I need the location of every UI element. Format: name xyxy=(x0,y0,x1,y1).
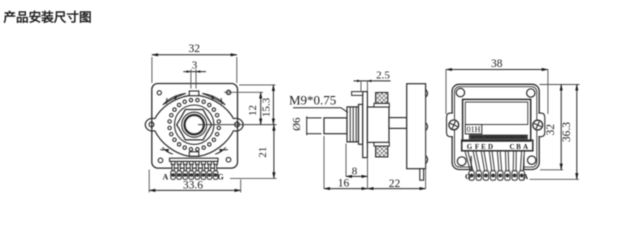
svg-text:2.5: 2.5 xyxy=(376,69,390,81)
centre leader line xyxy=(198,124,277,126)
connector terminals xyxy=(171,171,218,180)
flange plate xyxy=(363,92,368,158)
shaft xyxy=(324,118,347,134)
spring wing SW xyxy=(160,147,173,154)
dimension 16 xyxy=(324,136,368,190)
svg-text:8: 8 xyxy=(352,165,358,177)
front plate screw hole top-right xyxy=(227,90,231,94)
front plate screw hole bottom-right xyxy=(226,157,231,162)
left lobe xyxy=(145,118,155,131)
M9*0.75 label xyxy=(289,93,348,113)
svg-text:32: 32 xyxy=(545,124,557,136)
svg-text:A: A xyxy=(163,172,169,181)
back plate (side view) xyxy=(407,84,426,169)
body block xyxy=(367,107,389,142)
dimension 3 (tab width) xyxy=(183,59,206,88)
dimension 36.3 xyxy=(530,85,579,180)
letters G F E D C B A xyxy=(467,143,528,151)
label plate xyxy=(463,99,531,141)
outer circle xyxy=(175,105,214,144)
svg-text:产品安装尺寸图: 产品安装尺寸图 xyxy=(3,10,91,25)
dimension 38 xyxy=(446,58,548,114)
neck xyxy=(389,118,407,129)
spring wing NE xyxy=(202,93,225,104)
right lobe hole xyxy=(235,122,240,127)
back screw hole top-right xyxy=(527,89,535,97)
svg-text:G: G xyxy=(467,143,473,151)
svg-text:32: 32 xyxy=(188,43,200,55)
hex nut xyxy=(177,110,212,140)
svg-text:A: A xyxy=(523,143,528,151)
svg-text:16: 16 xyxy=(338,178,350,190)
back terminals xyxy=(469,171,525,181)
left side clip xyxy=(447,113,459,137)
svg-text:F: F xyxy=(475,143,479,151)
letters box xyxy=(462,140,533,151)
svg-text:C: C xyxy=(509,143,514,151)
svg-text:22: 22 xyxy=(389,178,401,190)
back plate outer xyxy=(452,84,539,169)
svg-text:12: 12 xyxy=(247,105,259,116)
top washer xyxy=(374,103,389,107)
dimension 33.6 xyxy=(149,170,241,193)
svg-text:01H: 01H xyxy=(467,125,481,134)
spring wing NW xyxy=(163,93,186,104)
svg-text:21: 21 xyxy=(257,147,269,158)
back plate inner line xyxy=(455,87,537,167)
svg-text:33.6: 33.6 xyxy=(183,180,203,192)
svg-text:G: G xyxy=(465,172,471,181)
dimension 2.5 xyxy=(354,69,391,91)
dot ring xyxy=(168,98,221,151)
right side clip xyxy=(533,113,545,137)
svg-text:HTTP://WWW.HT-ZDH.COM: HTTP://WWW.HT-ZDH.COM xyxy=(471,134,525,139)
shaft circle xyxy=(185,115,204,134)
connector pins xyxy=(171,161,217,170)
right lobe xyxy=(234,118,244,131)
lug bump top xyxy=(426,89,428,97)
lug bump middle xyxy=(426,123,428,131)
dimension 12 xyxy=(224,92,263,124)
top screw (hatched) xyxy=(376,93,388,104)
01H box xyxy=(465,125,482,134)
middle circle xyxy=(182,112,207,137)
back screw hole bottom-right xyxy=(528,156,536,164)
svg-text:3: 3 xyxy=(192,59,198,71)
back screw hole bottom-left xyxy=(457,157,466,166)
svg-text:Ø6: Ø6 xyxy=(291,117,303,131)
dimension 15.3 xyxy=(239,85,276,125)
svg-text:G: G xyxy=(218,172,224,181)
svg-text:M9*0.75: M9*0.75 xyxy=(289,93,336,108)
spring wing SE xyxy=(215,147,228,154)
collar ring xyxy=(359,104,363,144)
svg-text:E: E xyxy=(481,143,486,151)
dia6 dimension bracket xyxy=(291,116,322,135)
bottom screw (hatched) xyxy=(376,146,388,157)
back screw hole top-left xyxy=(456,88,464,96)
flange top tab xyxy=(352,92,363,96)
left lobe hole xyxy=(149,122,154,127)
connector header bar xyxy=(170,158,219,161)
svg-text:36.3: 36.3 xyxy=(561,122,573,142)
svg-text:B: B xyxy=(516,143,521,151)
svg-text:D: D xyxy=(488,143,493,151)
svg-text:15.3: 15.3 xyxy=(260,97,272,117)
threaded bushing xyxy=(347,107,359,142)
front mounting plate xyxy=(152,84,238,169)
top index tab xyxy=(189,91,199,96)
lug bump bottom xyxy=(426,155,428,163)
bottom index tab xyxy=(189,152,199,156)
website bar xyxy=(469,135,528,140)
label white area xyxy=(465,102,528,124)
dimension 8 xyxy=(346,144,368,178)
dimension 21 xyxy=(230,125,277,179)
dimension 32 (back) xyxy=(540,85,580,170)
bottom washer xyxy=(374,142,389,146)
bottom pin (side view) xyxy=(420,169,424,181)
front plate screw hole top-left xyxy=(157,91,161,95)
svg-text:38: 38 xyxy=(491,58,503,70)
dimension 22 xyxy=(368,96,426,190)
connector cutout xyxy=(471,155,524,171)
rotor body outline with side lobes xyxy=(155,96,234,157)
dimension 32 (front width) xyxy=(152,43,237,83)
back pins fan xyxy=(465,151,525,171)
front plate screw hole bottom-left xyxy=(158,158,163,163)
svg-text:A: A xyxy=(523,172,529,181)
